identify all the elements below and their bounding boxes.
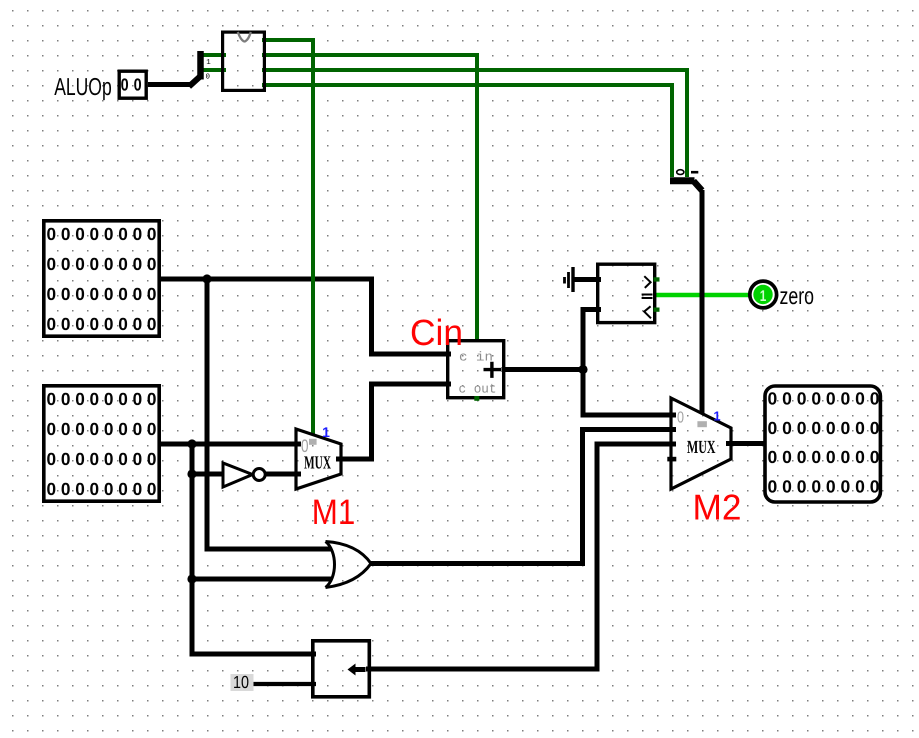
wire decoder out3 to splitter [262, 85, 672, 177]
wire branch to NOT gate input [192, 472, 223, 477]
wire pin1 to adder input A [158, 279, 451, 354]
comparator [598, 264, 660, 322]
svg-text:1: 1 [713, 409, 720, 424]
svg-text:0 0 0 0 0 0 0 0: 0 0 0 0 0 0 0 0 [47, 284, 157, 304]
svg-text:10: 10 [233, 672, 249, 692]
M2 port 3 stub [667, 457, 676, 462]
adder [448, 341, 504, 401]
svg-text:1: 1 [760, 288, 767, 305]
svg-text:ALUOp: ALUOp [54, 74, 111, 101]
mux M1 [296, 424, 341, 489]
svg-text:c in: c in [459, 350, 493, 365]
wire OR output to M2 input 1 [371, 430, 676, 564]
svg-text:0: 0 [134, 75, 142, 95]
adder carry-out port [474, 396, 479, 401]
svg-text:M1: M1 [312, 492, 356, 532]
svg-text:0 0 0 0 0 0 0 0: 0 0 0 0 0 0 0 0 [47, 419, 157, 439]
comparator greater symbol [644, 276, 650, 288]
svg-text:Cin: Cin [410, 312, 463, 353]
wire M1 output to adder input B [336, 384, 451, 459]
comparator equals symbol [642, 295, 653, 299]
shifter [313, 641, 370, 697]
M2 enable marker [697, 421, 707, 427]
svg-text:0 0 0 0 0 0 0 0: 0 0 0 0 0 0 0 0 [47, 224, 157, 244]
input pin ALUOp [119, 71, 146, 98]
svg-text:0 0 0 0 0 0 0 0: 0 0 0 0 0 0 0 0 [768, 418, 880, 438]
svg-text:0 0 0 0 0 0 0 0: 0 0 0 0 0 0 0 0 [768, 447, 880, 467]
svg-text:zero: zero [780, 283, 815, 310]
wire M2 output to output pin [726, 441, 766, 446]
junction node OR branch [187, 574, 196, 583]
splitter S1 (ALUOp fan-out) [189, 51, 211, 87]
svg-text:0 0 0 0 0 0 0 0: 0 0 0 0 0 0 0 0 [47, 389, 157, 409]
wire ALUOp pin to splitter [148, 82, 191, 87]
M1 enable marker [309, 439, 317, 445]
svg-text:M2: M2 [693, 486, 742, 527]
shifter arrow [352, 667, 366, 672]
wire adder output to node [502, 367, 584, 372]
svg-text:0 0 0 0 0 0 0 0: 0 0 0 0 0 0 0 0 [47, 449, 157, 469]
NOT gate bubble [253, 469, 265, 481]
wire comparator equals to zero pin (logic 1) [653, 293, 749, 298]
splitter S2 bit label 0 [677, 170, 684, 175]
wire node down to M2 input 0 [583, 370, 676, 416]
wire branch pin1 to OR gate input 1 [207, 279, 331, 549]
input pin IN1 (32-bit) [44, 221, 159, 336]
comparator less symbol [644, 306, 651, 318]
svg-text:0: 0 [121, 75, 129, 95]
svg-text:c out: c out [459, 382, 497, 397]
junction node adder output [578, 365, 587, 374]
wire shifter output to M2 input 2 [366, 444, 676, 669]
input pin IN2 (32-bit) [44, 386, 159, 501]
OR gate [326, 542, 372, 588]
svg-text:0: 0 [206, 72, 211, 81]
wire NOT gate output to M1 input 1 [265, 472, 301, 477]
junction node NOT branch [187, 469, 196, 478]
splitter S2 bit label 1 [691, 171, 698, 174]
constant 10 [231, 672, 254, 692]
junction node pin2/branch [187, 439, 196, 448]
wire node up to comparator input B [583, 310, 601, 370]
wire splitter leg to decoder in0 [203, 53, 226, 57]
comparator greater port [654, 277, 660, 281]
output pin zero (LED value 1) [750, 281, 777, 308]
svg-text:MUX: MUX [687, 438, 716, 458]
adder plus symbol [484, 362, 502, 378]
ground [565, 267, 574, 292]
wire ground to comparator input A [573, 277, 601, 282]
junction node pin1/branch [202, 274, 211, 283]
svg-text:0 0 0 0 0 0 0 0: 0 0 0 0 0 0 0 0 [47, 254, 157, 274]
svg-text:1: 1 [206, 59, 211, 67]
wire branch pin2 down to shifter input [192, 444, 316, 654]
svg-text:0: 0 [677, 410, 684, 427]
wire pin2 to MUX M1 input 0 [158, 442, 301, 447]
decoder notch [238, 32, 251, 41]
wire branch to OR gate input 2 [192, 577, 331, 582]
mux M2 [667, 398, 731, 489]
wire constant 10 to shifter [253, 682, 316, 686]
splitter S2 (M2 select combiner) [670, 170, 702, 191]
svg-text:MUX: MUX [304, 453, 331, 473]
wire M2 select bus from splitter [700, 190, 705, 414]
wire splitter leg to decoder in1 [203, 68, 226, 72]
svg-text:0 0 0 0 0 0 0 0: 0 0 0 0 0 0 0 0 [768, 389, 880, 409]
comparator less port [654, 308, 660, 312]
wire decoder out1 to adder carry-in [262, 55, 477, 342]
wire decoder out0 to M1 select [262, 40, 313, 435]
svg-text:0 0 0 0 0 0 0 0: 0 0 0 0 0 0 0 0 [47, 479, 157, 499]
svg-text:0 0 0 0 0 0 0 0: 0 0 0 0 0 0 0 0 [47, 314, 157, 334]
wire decoder out2 to splitter [262, 70, 687, 177]
decoder U1 [223, 32, 265, 90]
output pin OUT (32-bit) [765, 386, 880, 502]
NOT gate [223, 463, 265, 487]
svg-text:1: 1 [322, 424, 330, 440]
svg-text:0 0 0 0 0 0 0 0: 0 0 0 0 0 0 0 0 [768, 477, 880, 497]
